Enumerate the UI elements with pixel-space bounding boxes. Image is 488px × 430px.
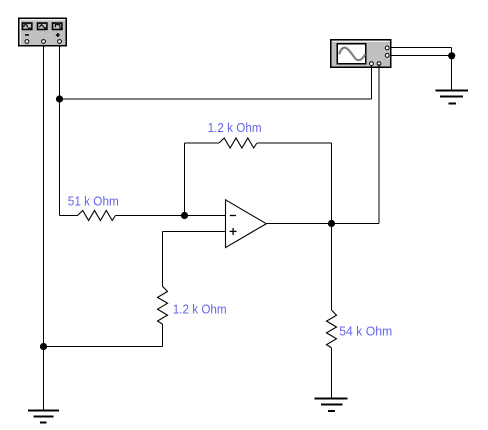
resistor R2 1.2k feedback zigzag xyxy=(219,138,257,148)
triangle waveform button xyxy=(37,22,48,30)
FG minus terminal xyxy=(25,40,29,44)
svg-text:1.2 k Ohm: 1.2 k Ohm xyxy=(208,120,262,135)
op-amp U1 triangle xyxy=(226,200,267,248)
wire feedback top right lead xyxy=(257,142,332,144)
resistor R3 1.2k vertical zigzag xyxy=(158,286,168,324)
wire scope trigger vertical xyxy=(378,64,380,224)
node A junction dot xyxy=(56,95,63,102)
ground symbol middle xyxy=(314,399,347,412)
wire output node down lead xyxy=(331,224,333,311)
wire feedback right vertical xyxy=(331,143,333,224)
oscilloscope screen xyxy=(337,44,366,64)
minus polarity label xyxy=(25,34,29,36)
node ground-left junction dot xyxy=(40,343,47,350)
wire feedback top left lead xyxy=(185,142,220,144)
wire R4 bottom lead to ground xyxy=(331,348,333,399)
scope bottom terminal G xyxy=(370,62,374,66)
node output junction dot xyxy=(328,220,335,227)
ground symbol left xyxy=(28,411,59,423)
sine waveform button xyxy=(22,22,33,30)
wire R3 bottom lead xyxy=(162,324,164,346)
wire node A to scope left horizontal xyxy=(60,98,372,100)
svg-text:1.2 k Ohm: 1.2 k Ohm xyxy=(173,302,227,317)
wire right node down to ground xyxy=(451,48,453,91)
wire scope ground terminal drop xyxy=(371,66,373,99)
wire R1 to inverting input xyxy=(115,215,225,217)
wire input row left lead xyxy=(60,215,78,217)
oscilloscope XSC1 body xyxy=(331,40,391,68)
FG common terminal xyxy=(42,40,46,44)
scope right terminal A xyxy=(385,46,389,50)
wire non-inverting down lead xyxy=(162,232,164,287)
wire FG plus down to input row xyxy=(59,46,61,216)
svg-text:51 k Ohm: 51 k Ohm xyxy=(68,193,119,208)
wire feedback left vertical xyxy=(184,143,186,216)
scope right terminal B xyxy=(385,54,389,58)
ground symbol right xyxy=(435,91,468,104)
wire bottom horizontal to ground node xyxy=(44,346,163,348)
resistor R4 54k vertical zigzag xyxy=(327,310,337,348)
scope bottom terminal T xyxy=(377,62,381,66)
FG plus terminal xyxy=(58,40,62,44)
function generator XFG1 body xyxy=(19,18,67,46)
plus polarity label xyxy=(56,33,60,37)
node scope-right junction dot xyxy=(448,52,455,59)
wire non-inverting input horizontal xyxy=(163,231,226,233)
svg-text:54 k Ohm: 54 k Ohm xyxy=(339,324,392,339)
square waveform button xyxy=(52,22,63,30)
wire scope terminal A to right node xyxy=(391,47,452,49)
node inverting input junction dot xyxy=(181,212,188,219)
wire scope terminal B to right node xyxy=(391,55,452,57)
wire FG common down to bottom node xyxy=(43,46,45,411)
wire op-amp output to scope branch xyxy=(266,223,379,225)
resistor R1 51k zigzag xyxy=(78,211,116,221)
